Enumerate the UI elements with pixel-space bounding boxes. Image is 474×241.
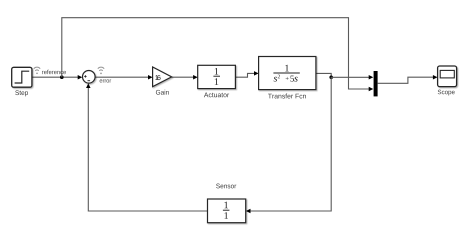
block Step	[12, 67, 32, 87]
wire: feedback down from junction and left into Sensor	[246, 77, 331, 213]
mux (vertical black bar)	[374, 71, 378, 96]
label Sensor	[216, 184, 236, 189]
wire: Gain output to Actuator	[172, 75, 198, 80]
label Step	[15, 90, 28, 96]
sum junction	[83, 71, 96, 84]
label error	[100, 79, 112, 82]
label Actuator	[204, 93, 229, 98]
denominator s^2+5s	[274, 75, 298, 82]
signal logging badge (reference)	[34, 67, 40, 71]
minus sign for bottom input	[88, 80, 91, 82]
block Actuator	[198, 65, 236, 88]
scope screen	[440, 70, 454, 78]
block Sensor	[208, 199, 246, 223]
node: branch junction on reference signal	[60, 75, 64, 79]
label Gain	[156, 90, 169, 95]
plus sign for left input	[84, 75, 86, 77]
wire: Sum output (error) to Gain	[95, 75, 152, 80]
wire: Mux output to Scope (jog up)	[378, 75, 438, 83]
step icon	[15, 71, 30, 83]
wire: Sensor output left then up into Sum bottom	[86, 83, 207, 211]
arrowhead into Mux input 2	[369, 87, 374, 92]
node: plant output junction	[329, 76, 333, 80]
fraction 1/1 (Sensor)	[224, 202, 228, 209]
fraction 1/1 (Actuator)	[215, 68, 219, 75]
label Scope	[438, 90, 455, 96]
fraction bar	[273, 72, 299, 74]
wire: Step output to Sum junction	[32, 75, 82, 80]
label reference	[42, 70, 66, 74]
numerator 1	[285, 65, 289, 72]
wire: Transfer Fcn output to junction node	[316, 73, 331, 77]
gain value 16	[155, 75, 160, 80]
block Scope	[438, 66, 457, 87]
signal logging badge (error)	[98, 67, 104, 71]
label Transfer Fcn	[268, 93, 306, 98]
block Transfer Fcn	[259, 57, 316, 90]
wire: Actuator output to Transfer Fcn (jog up)	[235, 71, 258, 77]
block Gain (triangle)	[153, 67, 172, 87]
wire: junction to Mux input 1	[331, 75, 373, 80]
wire: reference branch to top and down to Mux input 2	[62, 18, 370, 89]
